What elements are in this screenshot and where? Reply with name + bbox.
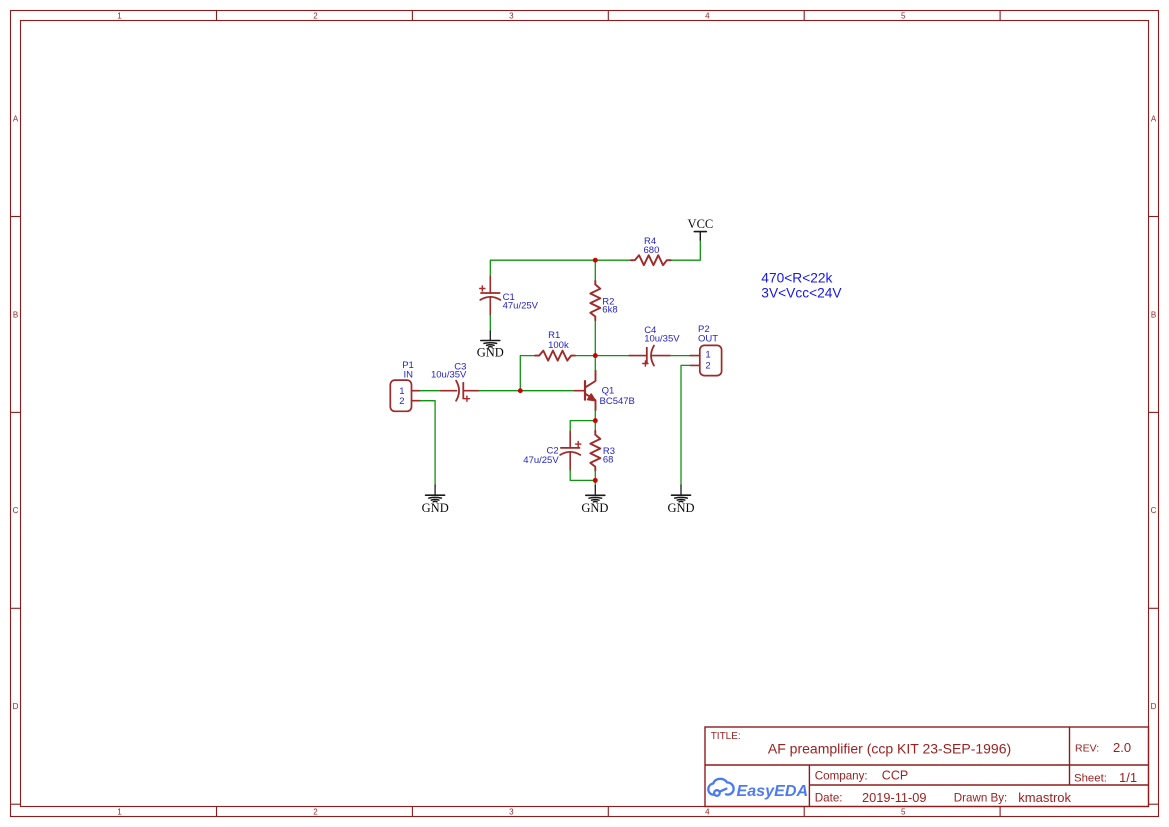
label C2 value (523, 445, 559, 466)
svg-text:D: D (13, 702, 19, 711)
svg-text:5: 5 (901, 11, 906, 20)
svg-text:2.0: 2.0 (1113, 740, 1131, 755)
svg-text:A: A (1151, 114, 1157, 123)
svg-text:1: 1 (117, 11, 122, 20)
svg-text:OUT: OUT (698, 334, 718, 345)
wire P1 pin2 down to ground (420, 401, 435, 486)
svg-text:2019-11-09: 2019-11-09 (862, 790, 927, 805)
wire emitter junction to C2 top (570, 421, 595, 432)
svg-text:VCC: VCC (688, 217, 714, 231)
title block texts (711, 731, 1137, 805)
svg-text:10u/35V: 10u/35V (644, 334, 680, 345)
label P2 OUT (698, 324, 718, 345)
junction base node (518, 388, 523, 393)
svg-text:1: 1 (705, 350, 710, 361)
wire P1 pin1 to C3 (420, 390, 441, 392)
svg-text:2: 2 (399, 396, 404, 407)
svg-text:GND: GND (477, 345, 504, 359)
svg-text:CCP: CCP (882, 769, 908, 783)
label C3 value (431, 361, 467, 380)
svg-text:3: 3 (509, 11, 514, 20)
label C1 value (503, 292, 539, 312)
svg-text:47u/25V: 47u/25V (503, 300, 539, 311)
svg-text:AF preamplifier (ccp KIT 23-SE: AF preamplifier (ccp KIT 23-SEP-1996) (768, 741, 1011, 757)
transistor Q1 (575, 371, 596, 411)
svg-text:A: A (13, 114, 19, 123)
svg-text:10u/35V: 10u/35V (431, 369, 467, 380)
svg-text:3: 3 (509, 807, 514, 816)
resistor R2 (590, 281, 600, 321)
wire top rail left (C1 riser to junction) (490, 260, 595, 276)
junction emitter node (593, 418, 598, 423)
junction bottom node (593, 478, 598, 483)
label Q1 value (600, 386, 635, 407)
label P1 IN (402, 360, 414, 380)
svg-text:GND: GND (422, 501, 449, 515)
wire C2 bottom to bottom junction (570, 470, 595, 480)
svg-text:TITLE:: TITLE: (711, 731, 741, 742)
wire Q1 collector to mid junction (594, 356, 596, 371)
svg-text:B: B (13, 310, 18, 319)
wire Q1 emitter to junction (594, 410, 596, 420)
junction mid rail (593, 353, 598, 358)
svg-text:Sheet:: Sheet: (1074, 773, 1107, 785)
svg-text:kmastrok: kmastrok (1018, 790, 1071, 805)
resistor R1 (535, 351, 575, 361)
wire R2 to mid junction (594, 321, 596, 356)
capacitor C2 (560, 431, 581, 470)
svg-text:D: D (1151, 702, 1157, 711)
wire R1 to mid junction and on to C4 (575, 355, 629, 357)
wire top rail junction to R4 (595, 259, 630, 261)
svg-text:2: 2 (313, 11, 318, 20)
svg-text:2: 2 (313, 807, 318, 816)
wire R4 to VCC riser (671, 240, 700, 260)
svg-text:IN: IN (404, 369, 414, 380)
label R1 value (548, 330, 569, 351)
svg-text:4: 4 (705, 11, 710, 20)
svg-text:100k: 100k (548, 340, 569, 351)
svg-text:47u/25V: 47u/25V (523, 455, 559, 466)
connector P2 (690, 345, 721, 375)
power flag VCC (688, 217, 714, 240)
wire bottom junction to ground (594, 480, 596, 485)
svg-text:REV:: REV: (1075, 743, 1099, 755)
svg-text:GND: GND (581, 501, 608, 515)
wire top junction to R2 (594, 260, 596, 280)
svg-text:C: C (1151, 506, 1157, 515)
annotation text (761, 271, 842, 301)
capacitor C4 (629, 346, 670, 367)
svg-text:6k8: 6k8 (602, 305, 617, 316)
title block (705, 727, 1149, 807)
svg-text:B: B (1151, 310, 1156, 319)
svg-text:Date:: Date: (815, 792, 843, 805)
svg-text:470<R<22k: 470<R<22k (761, 271, 832, 286)
connector P1 (390, 380, 420, 411)
svg-text:Drawn By:: Drawn By: (954, 792, 1007, 805)
wire P2 pin2 down to ground (681, 365, 690, 485)
wire emitter junction to R3 (594, 421, 596, 431)
wire R3 to bottom junction (594, 471, 596, 481)
resistor R4 (631, 255, 671, 265)
junction top rail (593, 258, 598, 263)
svg-text:3V<Vcc<24V: 3V<Vcc<24V (761, 285, 842, 300)
ground under P1 (422, 485, 449, 515)
svg-text:1/1: 1/1 (1119, 770, 1137, 785)
svg-text:2: 2 (705, 360, 710, 371)
wire C1 to ground (489, 315, 491, 331)
ground under R3 (581, 486, 608, 516)
svg-text:C: C (13, 506, 19, 515)
resistor R3 (590, 431, 600, 471)
wire C3 to base junction and to Q1 base (479, 390, 575, 392)
label R2 value (602, 296, 617, 315)
wire base column up and to R1 (520, 356, 536, 391)
label R4 value (644, 236, 660, 256)
svg-text:EasyEDA: EasyEDA (737, 782, 809, 800)
svg-text:680: 680 (644, 245, 660, 256)
svg-text:GND: GND (667, 501, 694, 515)
svg-text:4: 4 (705, 807, 710, 816)
capacitor C3 (441, 381, 480, 402)
ground under C1 (477, 331, 504, 359)
ground under P2 (667, 485, 694, 515)
svg-text:68: 68 (603, 455, 614, 466)
capacitor C1 (480, 276, 501, 315)
svg-text:Company:: Company: (815, 770, 868, 783)
svg-text:BC547B: BC547B (600, 396, 635, 407)
svg-text:1: 1 (117, 807, 122, 816)
svg-text:5: 5 (901, 807, 906, 816)
wire C4 to P2 (670, 355, 690, 357)
label C4 value (644, 325, 680, 345)
EasyEDA logo (708, 779, 808, 800)
label R3 value (603, 446, 615, 466)
